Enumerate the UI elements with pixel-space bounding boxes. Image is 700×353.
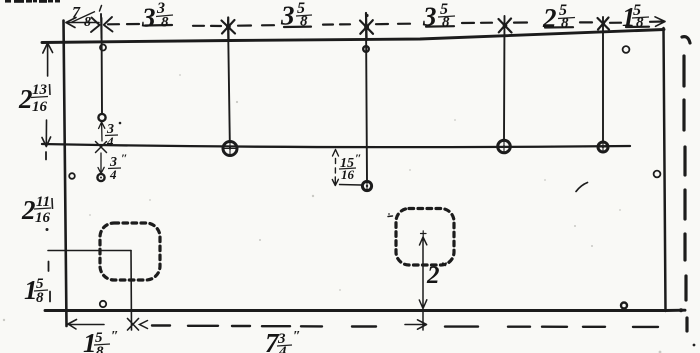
svg-text:16: 16: [35, 210, 51, 226]
svg-text:″: ″: [111, 329, 119, 344]
svg-text:2: 2: [21, 195, 36, 225]
svg-text:3: 3: [422, 2, 437, 32]
svg-text:″: ″: [355, 151, 362, 165]
svg-text:3: 3: [141, 3, 156, 33]
svg-text:8: 8: [161, 15, 169, 31]
svg-text:16: 16: [32, 99, 48, 115]
svg-text:8: 8: [36, 290, 44, 306]
svg-text:2: 2: [426, 262, 440, 289]
svg-text:4: 4: [106, 134, 114, 149]
svg-text:13: 13: [32, 82, 48, 98]
svg-text:″: ″: [440, 260, 449, 277]
svg-text:4: 4: [109, 167, 117, 182]
svg-text:″: ″: [121, 151, 128, 165]
svg-text:8: 8: [84, 15, 91, 30]
svg-text:2: 2: [18, 84, 33, 114]
svg-text:3: 3: [280, 1, 295, 31]
svg-text:″: ″: [293, 329, 301, 344]
svg-text:2: 2: [542, 3, 557, 33]
